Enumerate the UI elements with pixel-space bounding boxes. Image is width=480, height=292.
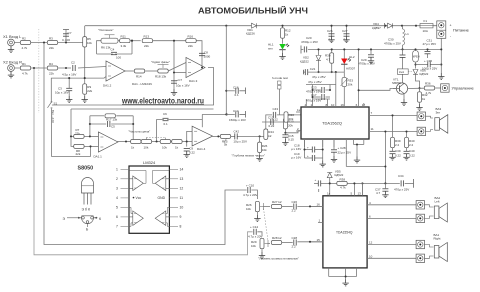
svg-text:C28: C28	[292, 236, 298, 240]
svg-text:DA1.3: DA1.3	[189, 79, 198, 83]
svg-text:Left: Left	[435, 199, 440, 203]
svg-text:R3: R3	[49, 37, 53, 41]
svg-text:F1: F1	[424, 19, 428, 23]
svg-text:4.7k: 4.7k	[340, 186, 346, 190]
svg-text:+ C28: + C28	[338, 146, 346, 150]
svg-text:R28 k2: R28 k2	[272, 236, 282, 240]
svg-text:C14: C14	[233, 109, 239, 113]
svg-text:10: 10	[180, 206, 184, 210]
svg-text:R36: R36	[425, 82, 431, 86]
svg-text:22k: 22k	[75, 131, 80, 135]
svg-text:Питание: Питание	[453, 28, 470, 33]
svg-text:R14: R14	[136, 75, 142, 79]
svg-text:R2: R2	[22, 37, 26, 41]
svg-text:1s: 1s	[297, 108, 301, 112]
svg-text:20k: 20k	[288, 124, 293, 128]
svg-text:R38: R38	[340, 177, 346, 181]
svg-text:Э б К: Э б К	[82, 208, 91, 212]
svg-text:C6: C6	[163, 112, 167, 116]
svg-text:15: 15	[317, 238, 321, 242]
svg-text:C13: C13	[268, 116, 274, 120]
svg-text:C39: C39	[395, 149, 401, 153]
svg-text:4.7µ x 20V: 4.7µ x 20V	[243, 193, 257, 197]
svg-text:4.5µ x 16V: 4.5µ x 16V	[62, 73, 76, 77]
svg-text:16: 16	[317, 202, 321, 206]
svg-text:1000: 1000	[204, 55, 211, 59]
svg-text:22k: 22k	[49, 71, 54, 75]
svg-text:10: 10	[331, 103, 335, 107]
svg-text:4.7: 4.7	[326, 58, 331, 62]
svg-text:µ x 16V: µ x 16V	[291, 156, 301, 160]
svg-text:"Частота среза": "Частота среза"	[128, 130, 150, 134]
svg-text:22µ x 25V: 22µ x 25V	[338, 151, 352, 155]
svg-text:R13: R13	[144, 35, 150, 39]
svg-text:5: 5	[116, 206, 118, 210]
svg-text:470µ x 16V: 470µ x 16V	[306, 99, 321, 103]
svg-text:1: 1	[116, 168, 118, 172]
svg-text:1k: 1k	[422, 97, 426, 101]
svg-text:X2 Вход R: X2 Вход R	[3, 60, 22, 65]
svg-text:C26: C26	[292, 200, 298, 204]
svg-text:0.15: 0.15	[288, 138, 294, 142]
svg-text:16: 16	[341, 103, 345, 107]
svg-text:КД522: КД522	[300, 60, 309, 64]
svg-text:11: 11	[371, 127, 374, 131]
svg-text:4.7k: 4.7k	[426, 91, 432, 95]
svg-text:0.1: 0.1	[235, 93, 240, 97]
svg-text:Кн1: Кн1	[399, 70, 404, 74]
svg-text:10: 10	[369, 254, 373, 258]
svg-text:DA1.2: DA1.2	[103, 84, 112, 88]
svg-text:14: 14	[180, 168, 184, 172]
svg-text:47µ x 25V: 47µ x 25V	[308, 80, 322, 84]
svg-text:0.22: 0.22	[395, 154, 401, 158]
svg-text:C27: C27	[342, 29, 348, 33]
svg-text:1k: 1k	[131, 146, 135, 150]
svg-text:20k: 20k	[289, 117, 294, 121]
svg-text:10µ x 16V: 10µ x 16V	[55, 91, 69, 95]
svg-text:4.7k: 4.7k	[22, 71, 28, 75]
svg-text:+C7: +C7	[177, 78, 183, 82]
svg-text:X1 Вход L: X1 Вход L	[3, 34, 22, 39]
svg-text:22k: 22k	[188, 44, 193, 48]
svg-text:S1: S1	[54, 102, 58, 106]
svg-text:"Глубина низких частот": "Глубина низких частот"	[232, 154, 266, 158]
svg-text:R17 13k: R17 13k	[106, 118, 118, 122]
svg-text:2.2: 2.2	[395, 143, 400, 147]
svg-text:2: 2	[116, 177, 118, 181]
svg-text:"Уровень громкости каналов": "Уровень громкости каналов"	[258, 257, 299, 261]
svg-text:17: 17	[362, 103, 366, 107]
svg-text:C4: C4	[111, 48, 115, 52]
svg-text:h-mode test: h-mode test	[272, 76, 288, 80]
svg-text:22k: 22k	[87, 89, 92, 93]
svg-text:+ C10: + C10	[246, 184, 254, 188]
svg-text:C21: C21	[310, 67, 316, 71]
svg-text:"Усиление": "Усиление"	[98, 28, 113, 32]
svg-text:C16: C16	[233, 86, 239, 90]
svg-text:1k: 1k	[285, 33, 289, 37]
svg-text:10А: 10А	[423, 29, 428, 33]
svg-text:3: 3	[116, 187, 118, 191]
svg-text:R4: R4	[49, 62, 53, 66]
svg-text:3вт: 3вт	[436, 111, 441, 115]
svg-text:+ C14: + C14	[250, 225, 258, 229]
svg-text:C42: C42	[234, 130, 240, 134]
svg-text:R16: R16	[188, 35, 194, 39]
svg-text:22k: 22k	[76, 152, 81, 156]
svg-text:www.electroavto.narod.ru: www.electroavto.narod.ru	[121, 96, 204, 105]
svg-text:13: 13	[358, 192, 362, 196]
svg-text:12: 12	[180, 187, 184, 191]
svg-text:470µ x 25V: 470µ x 25V	[394, 188, 409, 192]
svg-text:DA1.1: DA1.1	[94, 155, 103, 159]
svg-text:10k: 10k	[144, 146, 149, 150]
svg-text:47µ x 25V: 47µ x 25V	[312, 75, 326, 79]
svg-text:КД522: КД522	[335, 173, 344, 177]
svg-text:C,100: C,100	[62, 38, 70, 42]
svg-text:C34: C34	[398, 174, 404, 178]
svg-text:LM324: LM324	[143, 160, 156, 165]
svg-text:C26: C26	[327, 29, 333, 33]
svg-text:12: 12	[369, 241, 373, 245]
svg-text:C2: C2	[71, 61, 75, 65]
svg-text:47µ x 35V: 47µ x 35V	[423, 42, 437, 46]
svg-text:6: 6	[116, 215, 118, 219]
svg-text:10k: 10k	[246, 207, 251, 211]
svg-text:100: 100	[116, 56, 121, 60]
svg-text:0.22: 0.22	[269, 124, 275, 128]
svg-text:1k: 1k	[175, 146, 179, 150]
svg-text:зел: зел	[268, 47, 273, 51]
svg-text:2.2: 2.2	[292, 209, 297, 213]
svg-text:КД522: КД522	[420, 72, 429, 76]
svg-text:5k: 5k	[224, 143, 228, 147]
svg-text:DA1 - LM324N: DA1 - LM324N	[132, 82, 152, 86]
svg-text:+: +	[315, 178, 317, 182]
svg-text:КД226: КД226	[246, 32, 255, 36]
svg-text:k2: k2	[268, 134, 272, 138]
svg-text:9: 9	[180, 215, 182, 219]
svg-text:R18 13k: R18 13k	[155, 75, 167, 79]
svg-text:10k: 10k	[251, 244, 256, 248]
svg-text:13: 13	[180, 177, 184, 181]
svg-text:4.7µ x 20V: 4.7µ x 20V	[248, 235, 262, 239]
svg-text:7: 7	[116, 225, 118, 229]
svg-text:0.1: 0.1	[164, 122, 169, 126]
svg-text:Управление: Управление	[452, 86, 475, 91]
svg-text:0.22: 0.22	[409, 154, 415, 158]
svg-text:100µ x 25V: 100µ x 25V	[422, 67, 437, 71]
svg-text:R1: R1	[22, 62, 26, 66]
svg-text:S8050: S8050	[392, 81, 401, 85]
svg-text:10k: 10k	[262, 148, 267, 152]
svg-text:2.2: 2.2	[409, 143, 414, 147]
svg-text:C40: C40	[409, 149, 415, 153]
svg-text:Right: Right	[434, 237, 441, 241]
svg-text:11: 11	[180, 196, 184, 200]
svg-text:АЛ307: АЛ307	[346, 67, 355, 71]
svg-text:22k: 22k	[144, 44, 149, 48]
svg-text:+: +	[307, 154, 309, 158]
svg-text:4.7k: 4.7k	[22, 46, 28, 50]
svg-text:R11: R11	[121, 35, 127, 39]
svg-text:CY: CY	[68, 31, 72, 35]
svg-text:L1: L1	[406, 32, 410, 36]
svg-text:20k: 20k	[348, 83, 353, 87]
svg-text:TDA1554Q: TDA1554Q	[336, 231, 353, 235]
svg-text:3.3k: 3.3k	[121, 44, 127, 48]
svg-text:2.2: 2.2	[292, 245, 297, 249]
svg-text:"Сдвиг фазы": "Сдвиг фазы"	[151, 60, 170, 64]
svg-text:8: 8	[180, 225, 182, 229]
svg-text:+ C36: + C36	[424, 59, 432, 63]
svg-text:4.7: 4.7	[376, 191, 381, 195]
svg-text:КРЕН: КРЕН	[413, 55, 420, 59]
svg-text:HL2: HL2	[349, 55, 355, 59]
svg-text:10µ x 16V: 10µ x 16V	[176, 84, 190, 88]
svg-text:Vcc: Vcc	[136, 196, 142, 200]
svg-text:АВТОМОБИЛЬНЫЙ УНЧ: АВТОМОБИЛЬНЫЙ УНЧ	[198, 5, 308, 16]
svg-text:4700µ x 25V: 4700µ x 25V	[384, 42, 401, 46]
svg-text:4: 4	[116, 196, 118, 200]
svg-text:µ x 16V: µ x 16V	[291, 147, 301, 151]
svg-text:10µ x 25V: 10µ x 25V	[233, 139, 247, 143]
svg-text:10k: 10k	[87, 41, 92, 45]
svg-text:R6 13k: R6 13k	[101, 46, 111, 50]
svg-text:R27 k2: R27 k2	[272, 200, 282, 204]
svg-text:S8050: S8050	[78, 166, 94, 172]
svg-text:22k: 22k	[49, 46, 54, 50]
svg-text:10k: 10k	[162, 146, 167, 150]
svg-text:1500µ x 16V: 1500µ x 16V	[229, 118, 246, 122]
svg-text:+: +	[307, 145, 309, 149]
svg-text:+: +	[450, 24, 452, 28]
svg-text:КД897: КД897	[372, 26, 381, 30]
svg-text:DA1.4: DA1.4	[197, 147, 206, 151]
svg-text:GND: GND	[158, 196, 166, 200]
svg-text:TDA1562Q: TDA1562Q	[322, 121, 342, 126]
svg-text:4700µ x 25V: 4700µ x 25V	[301, 40, 318, 44]
svg-text:1x: 1x	[327, 192, 331, 196]
svg-text:0.22: 0.22	[189, 151, 195, 155]
svg-text:C43: C43	[273, 107, 279, 111]
